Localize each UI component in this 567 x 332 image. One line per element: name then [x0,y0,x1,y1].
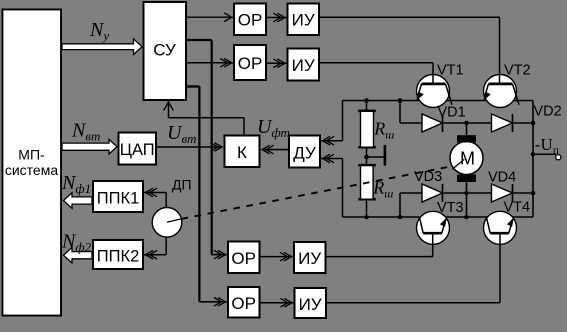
svg-text:VT2: VT2 [504,63,531,79]
svg-text:ППК2: ППК2 [97,248,140,266]
svg-text:ОР: ОР [231,249,256,268]
svg-text:VT1: VT1 [437,63,464,79]
svg-text:VD2: VD2 [534,104,562,120]
svg-text:VT3: VT3 [437,200,464,216]
svg-text:ОР: ОР [231,294,256,313]
svg-text:ИУ: ИУ [292,56,315,75]
svg-text:М: М [460,148,475,168]
svg-text:ИУ: ИУ [298,249,321,268]
svg-text:МП-: МП- [18,146,45,162]
svg-text:ОР: ОР [238,54,263,73]
svg-text:VD3: VD3 [414,169,442,185]
svg-text:ЦАП: ЦАП [120,141,155,159]
svg-text:ДУ: ДУ [293,144,316,163]
svg-text:система: система [5,162,58,178]
svg-text:VD4: VD4 [488,170,516,186]
svg-text:ДП: ДП [172,177,192,193]
svg-text:ИУ: ИУ [299,295,322,314]
svg-text:VD1: VD1 [438,104,466,120]
svg-text:ППК1: ППК1 [97,190,140,208]
svg-text:К: К [237,143,247,162]
svg-text:СУ: СУ [153,41,176,60]
svg-text:ОР: ОР [238,11,263,30]
svg-text:VT4: VT4 [504,200,531,216]
svg-text:ИУ: ИУ [292,11,315,30]
